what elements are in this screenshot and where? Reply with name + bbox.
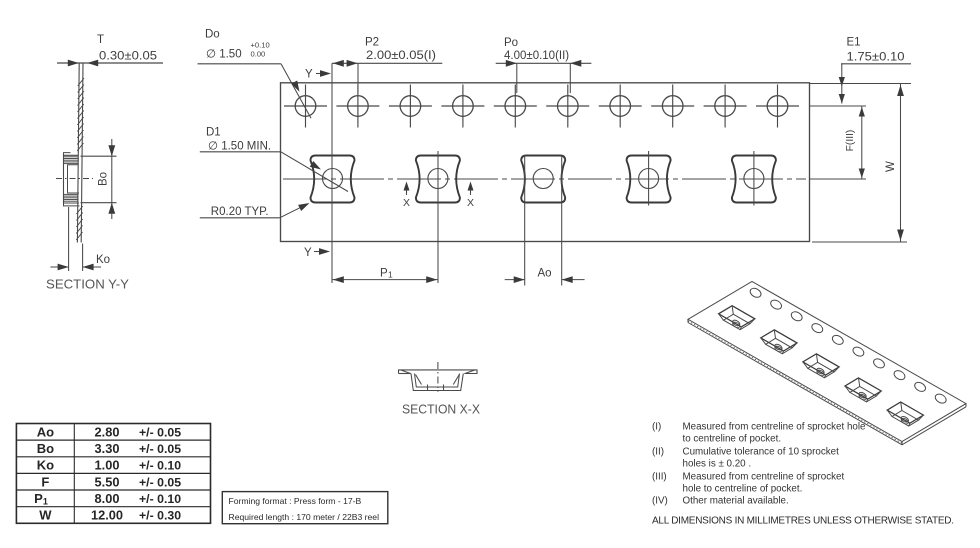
svg-text:∅ 1.50: ∅ 1.50 <box>206 49 242 61</box>
svg-text:Ao: Ao <box>37 424 54 439</box>
dim Bo arrow top <box>108 145 115 156</box>
pocket bump section outline <box>64 155 80 203</box>
svg-text:4.00±0.10(II): 4.00±0.10(II) <box>504 50 569 62</box>
svg-text:12.00: 12.00 <box>91 508 123 523</box>
pocket P3 <box>521 156 565 203</box>
svg-text:ALL DIMENSIONS IN MILLIMETRES: ALL DIMENSIONS IN MILLIMETRES UNLESS OTH… <box>652 516 954 527</box>
sprocket hole S1 <box>295 96 316 117</box>
svg-text:P: P <box>380 268 388 280</box>
dim T arrow left <box>87 60 98 67</box>
svg-text:5.50: 5.50 <box>95 474 120 489</box>
pocket P1 <box>311 156 355 203</box>
svg-text:X: X <box>403 197 410 209</box>
dim Po line <box>496 62 592 64</box>
svg-text:+/- 0.30: +/- 0.30 <box>139 509 181 523</box>
dim Ko line right <box>83 266 101 268</box>
svg-text:(I): (I) <box>652 421 661 432</box>
sprocket hole S9 <box>715 96 736 117</box>
sprocket hole S6 <box>558 96 579 117</box>
sprocket hole S3 <box>400 96 421 117</box>
svg-text:+/- 0.05: +/- 0.05 <box>139 442 181 456</box>
3D pocket 5 <box>887 402 923 426</box>
3D sprocket hole 5 <box>831 334 845 347</box>
svg-text:+/- 0.10: +/- 0.10 <box>139 459 181 473</box>
svg-text:E1: E1 <box>847 37 861 49</box>
3D pocket 1 <box>719 306 755 330</box>
pocket P4 <box>627 156 671 203</box>
bump wall hatching bottom <box>64 193 79 195</box>
svg-text:+/- 0.10: +/- 0.10 <box>139 492 181 506</box>
dim P2 right extension <box>357 63 359 93</box>
3D sprocket hole 6 <box>851 345 865 358</box>
sprocket hole S4 <box>453 96 474 117</box>
svg-text:3.30: 3.30 <box>95 441 120 456</box>
dim Bo bottom extension <box>81 202 117 204</box>
svg-text:+/- 0.05: +/- 0.05 <box>139 475 181 489</box>
dimension table <box>16 424 210 524</box>
pocket cross-section outer profile <box>411 374 463 391</box>
bump top flange notch <box>64 153 71 156</box>
dim Ao right extension <box>561 156 563 286</box>
svg-text:hole to centreline of pocket.: hole to centreline of pocket. <box>683 483 803 494</box>
svg-text:R0.20 TYP.: R0.20 TYP. <box>211 206 269 218</box>
dim T arrow right <box>68 60 79 67</box>
svg-text:(III): (III) <box>652 471 667 482</box>
bump bottom lip <box>64 203 80 206</box>
section X-X flange <box>399 370 478 374</box>
dim Ko line left <box>50 266 68 268</box>
3D tape plate outline <box>688 282 966 442</box>
dim F line <box>861 106 863 179</box>
svg-text:Forming format : Press form -: Forming format : Press form - 17-B <box>229 496 362 506</box>
dim P1 line <box>332 279 438 281</box>
label R0.20 leader line <box>200 217 280 219</box>
dim P2 line <box>332 62 442 64</box>
svg-text:Ko: Ko <box>96 254 110 266</box>
bump centre dash line <box>56 178 93 180</box>
dim Po left extension <box>516 63 518 93</box>
section line X-X <box>437 151 439 283</box>
sprocket hole S8 <box>662 96 683 117</box>
3D sprocket hole 3 <box>790 310 804 323</box>
tape strip section <box>77 63 79 243</box>
dim W line <box>900 84 902 242</box>
svg-text:to centreline of pocket.: to centreline of pocket. <box>683 433 782 444</box>
pocket cross-section inner profile <box>415 374 460 388</box>
svg-text:T: T <box>97 34 104 46</box>
3D sprocket hole 10 <box>934 392 948 405</box>
svg-text:Po: Po <box>504 37 518 49</box>
label Do leader line <box>198 63 282 65</box>
forming format box <box>222 492 387 524</box>
svg-text:X: X <box>467 197 474 209</box>
dim Ko right extension <box>82 244 84 272</box>
svg-text:F(III): F(III) <box>845 130 856 152</box>
svg-text:+/- 0.05: +/- 0.05 <box>139 425 181 439</box>
svg-text:Y: Y <box>304 247 312 259</box>
3D sprocket hole 8 <box>892 369 906 382</box>
3D sprocket hole 9 <box>913 381 927 394</box>
svg-text:W: W <box>885 161 897 172</box>
svg-text:F: F <box>41 474 49 489</box>
3D sprocket hole 4 <box>810 322 824 335</box>
svg-text:Do: Do <box>205 29 220 41</box>
3D sprocket hole 2 <box>769 298 783 311</box>
3D plate thickness edge <box>688 323 966 445</box>
svg-text:∅ 1.50 MIN.: ∅ 1.50 MIN. <box>208 141 271 153</box>
strip hatching <box>78 78 84 86</box>
dim Bo arrow bottom <box>108 203 115 214</box>
pocket P4 centre line <box>648 151 650 206</box>
label R0.20 leader arrow <box>298 203 309 211</box>
dim T line <box>57 62 163 64</box>
svg-text:Ko: Ko <box>37 458 54 473</box>
svg-text:D1: D1 <box>206 127 221 139</box>
svg-text:Bo: Bo <box>37 441 54 456</box>
svg-text:Measured from centreline of sp: Measured from centreline of sprocket <box>683 471 845 482</box>
svg-text:SECTION Y-Y: SECTION Y-Y <box>46 277 129 292</box>
dim Ao left extension <box>524 156 526 286</box>
sprocket hole S2 <box>348 96 369 117</box>
bottom edge extension <box>812 241 907 243</box>
svg-text:1.00: 1.00 <box>95 458 120 473</box>
dim Po right extension <box>569 63 571 93</box>
3D edge hatch ticks <box>688 321 902 443</box>
svg-text:Measured from centreline of sp: Measured from centreline of sprocket hol… <box>683 421 867 432</box>
svg-text:8.00: 8.00 <box>95 491 120 506</box>
top edge extension <box>810 83 911 85</box>
label R0.20 leader diagonal <box>280 205 306 218</box>
svg-text:Bo: Bo <box>98 172 110 186</box>
pocket wall hatch marks <box>416 375 422 385</box>
svg-text:Other material available.: Other material available. <box>683 496 789 507</box>
sprocket hole S10 <box>767 96 788 117</box>
sprocket hole S5 <box>505 96 526 117</box>
label D1 leader line <box>200 151 281 153</box>
flange end chamfers <box>401 370 411 374</box>
sprocket hole S7 <box>610 96 631 117</box>
3D sprocket hole 1 <box>749 286 763 299</box>
bump wall hatching top <box>64 156 79 158</box>
3D pocket 2 <box>761 330 797 354</box>
bump inner cavity <box>68 165 80 193</box>
dim E1 underline <box>841 63 911 65</box>
pocket centre chain line <box>283 178 806 180</box>
svg-text:0.00: 0.00 <box>251 50 266 59</box>
svg-text:W: W <box>39 508 52 523</box>
pocket P2 <box>416 156 460 203</box>
svg-text:P2: P2 <box>365 37 379 49</box>
section line Y-Y <box>331 63 333 283</box>
3D pocket 3 <box>803 354 839 378</box>
3D pocket 4 <box>845 378 881 402</box>
svg-text:Cumulative tolerance of 10 spr: Cumulative tolerance of 10 sprocket <box>683 446 840 457</box>
svg-text:Y: Y <box>305 69 313 81</box>
pocket centreline extension <box>810 178 866 180</box>
label D1 leader diagonal <box>281 152 348 192</box>
dim E1 leader <box>841 64 843 104</box>
label D1 leader arrow <box>310 161 321 170</box>
svg-text:(II): (II) <box>652 446 664 457</box>
svg-text:P1: P1 <box>34 491 48 507</box>
svg-text:holes is ± 0.20 .: holes is ± 0.20 . <box>683 458 752 469</box>
tape outline <box>281 83 810 242</box>
dim Bo top extension <box>81 155 117 157</box>
pocket P5 centre line <box>753 151 755 206</box>
svg-text:1.75±0.10: 1.75±0.10 <box>847 52 905 64</box>
svg-text:0.30±0.05: 0.30±0.05 <box>99 51 157 63</box>
svg-text:Required length : 170 meter /: Required length : 170 meter / 22B3 reel <box>229 512 380 522</box>
label Do leader arrow <box>291 81 299 92</box>
3D sprocket hole 7 <box>872 357 886 370</box>
svg-text:(IV): (IV) <box>652 496 668 507</box>
svg-text:1: 1 <box>388 270 393 280</box>
svg-text:SECTION X-X: SECTION X-X <box>402 402 480 417</box>
section X arrows <box>406 185 408 195</box>
svg-text:2.00±0.05(I): 2.00±0.05(I) <box>366 50 436 62</box>
svg-text:2.80: 2.80 <box>95 424 120 439</box>
pocket P5 <box>732 156 776 203</box>
sprocket centreline extension <box>810 105 866 107</box>
dim Ko left extension <box>68 207 70 271</box>
svg-text:+0.10: +0.10 <box>251 41 270 50</box>
dim Bo line <box>111 139 113 219</box>
section X-X centreline <box>437 362 439 392</box>
svg-text:Ao: Ao <box>538 268 552 280</box>
label Do leader diagonal <box>281 64 311 119</box>
